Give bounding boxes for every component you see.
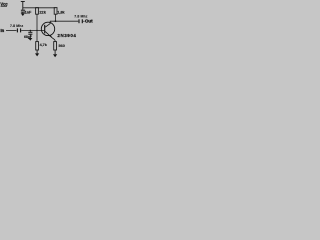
wire 4,7k to ground (36, 50, 38, 54)
capacitor 1nF (21, 10, 25, 13)
wire input (6, 29, 17, 31)
svg-text:4,7k: 4,7k (40, 43, 48, 47)
wire 560 to ground (54, 50, 56, 54)
resistor 1,8k (54, 8, 57, 15)
ground (under 560) (53, 54, 57, 57)
crystal Y2 (output) (79, 19, 85, 23)
svg-text:Vcc: Vcc (0, 1, 8, 6)
resistor 560 (54, 42, 57, 50)
background (0, 0, 100, 65)
node bias divider tap (36, 30, 37, 31)
crystal Y1 (input) (17, 28, 20, 32)
emitter arrowhead (49, 35, 52, 37)
svg-text:In: In (1, 28, 5, 33)
resistor 22k (36, 8, 39, 15)
svg-text:1,8k: 1,8k (57, 11, 65, 15)
resistor 4,7k (36, 42, 39, 50)
wire emitter to 560 (54, 40, 56, 42)
Vcc underline (1, 5, 7, 7)
wire base node to 4,7k (36, 30, 38, 41)
svg-text:Out: Out (85, 19, 93, 24)
Vcc rail wire (23, 7, 56, 9)
svg-text:1nF: 1nF (25, 10, 32, 14)
svg-text:7.8 Mhz: 7.8 Mhz (10, 24, 23, 28)
wire 1,8k to collector node (55, 14, 57, 21)
Vcc stub (21, 2, 25, 10)
wire crystal to base (21, 29, 44, 31)
transistor Q1 2N3904 (41, 22, 55, 40)
svg-text:2N3904: 2N3904 (57, 33, 76, 38)
ground (under 4,7k) (35, 53, 39, 56)
node 68pF tap (30, 30, 31, 31)
svg-text:560: 560 (59, 44, 65, 48)
node collector junction (55, 20, 57, 22)
ground (under 1nF) (21, 13, 25, 16)
ground (under 68pF) (28, 38, 32, 41)
svg-text:22k: 22k (39, 10, 46, 15)
wire 22k to base node (36, 14, 38, 30)
capacitor 68pF (28, 30, 32, 38)
wire collector (50, 21, 78, 24)
